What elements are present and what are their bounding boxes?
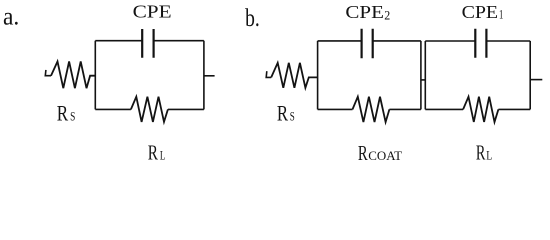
wire box b1 top-left segment xyxy=(318,40,362,42)
resistor RL (a) xyxy=(131,97,168,122)
wire box a left edge xyxy=(94,41,96,110)
resistor RL (b) xyxy=(463,97,498,122)
svg-text:CPE: CPE xyxy=(133,1,172,21)
label RS (a) xyxy=(57,100,75,125)
svg-text:a.: a. xyxy=(3,3,19,30)
svg-text:R: R xyxy=(358,141,368,164)
label RCOAT xyxy=(358,141,402,165)
capacitor CPE2 xyxy=(362,29,373,58)
wire box b1 bottom-right segment xyxy=(389,108,421,110)
wire box a top-right segment xyxy=(154,40,204,42)
wire box b1 bottom-left segment xyxy=(318,108,353,110)
wire output stub (a) xyxy=(204,75,215,77)
resistor RS (b) xyxy=(271,63,317,88)
svg-text:2: 2 xyxy=(384,7,390,22)
svg-text:L: L xyxy=(486,148,492,163)
label RL (b) xyxy=(476,141,492,165)
wire box a top-left segment xyxy=(95,40,142,42)
wire box a bottom-right segment xyxy=(168,108,204,110)
svg-text:1: 1 xyxy=(499,6,503,21)
wire box a bottom-left segment xyxy=(95,108,131,110)
svg-text:CPE: CPE xyxy=(345,2,384,22)
wire box b2 left edge xyxy=(424,41,426,109)
wire box b1 top-right segment xyxy=(373,40,421,42)
svg-text:R: R xyxy=(476,141,486,164)
label RS (b) xyxy=(277,101,295,126)
svg-text:COAT: COAT xyxy=(368,148,402,163)
resistor RCOAT xyxy=(353,97,390,122)
svg-text:b.: b. xyxy=(245,5,260,32)
wire box b2 bottom-left segment xyxy=(425,108,463,110)
svg-text:CPE: CPE xyxy=(462,2,499,22)
label CPE2 xyxy=(345,2,390,22)
svg-text:R: R xyxy=(148,141,159,164)
wire box a right edge xyxy=(203,41,205,110)
svg-text:S: S xyxy=(290,109,295,124)
wire input lead with hook (b) xyxy=(266,71,271,77)
wire box b2 top-right segment xyxy=(486,40,530,42)
wire box b1 right edge xyxy=(420,41,422,110)
wire box b1 left edge xyxy=(317,41,319,110)
wire box b2 top-left segment xyxy=(425,40,475,42)
wire connector between box b1 and box b2 xyxy=(421,79,425,81)
svg-text:R: R xyxy=(277,101,288,126)
wire output stub (b) xyxy=(530,79,542,81)
capacitor CPE (a) xyxy=(142,29,153,58)
wire input lead with hook (a) xyxy=(45,70,51,76)
capacitor CPE1 xyxy=(475,29,486,58)
wire box b2 bottom-right segment xyxy=(498,108,530,110)
label CPE1 xyxy=(462,2,504,22)
svg-text:S: S xyxy=(70,108,75,123)
resistor RS (a) xyxy=(51,62,95,89)
label RL (a) xyxy=(148,141,166,165)
svg-text:L: L xyxy=(160,148,165,163)
wire box b2 right edge xyxy=(529,41,531,109)
svg-text:R: R xyxy=(57,100,69,125)
